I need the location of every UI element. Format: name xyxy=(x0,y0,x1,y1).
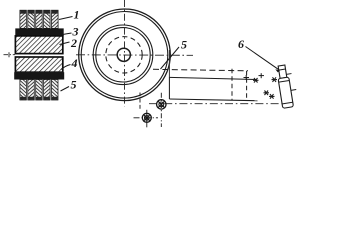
leader 5 left xyxy=(61,87,70,92)
wheel horizontal centerline xyxy=(76,54,193,57)
upper hub block xyxy=(15,36,62,54)
plus mark b xyxy=(259,73,265,78)
axis stub left of section xyxy=(4,52,16,57)
leader 5 right xyxy=(161,47,180,69)
svg-text:5: 5 xyxy=(71,78,77,92)
bore circle xyxy=(117,48,130,61)
asterisk 2 xyxy=(272,77,278,82)
wheel front view xyxy=(79,9,171,101)
svg-text:6: 6 xyxy=(238,37,244,51)
svg-text:1: 1 xyxy=(74,8,80,22)
asterisk 1 xyxy=(253,78,259,83)
plus mark a xyxy=(244,75,250,80)
svg-text:5: 5 xyxy=(181,38,187,52)
wheel vertical centerline xyxy=(124,0,126,107)
disc stack bottom (item 5) xyxy=(20,80,58,101)
asterisk 4 xyxy=(269,94,275,99)
leader 3 xyxy=(60,33,72,35)
rim inner circle xyxy=(81,12,168,99)
leader 6 xyxy=(246,47,280,70)
bolt circle dashed xyxy=(106,37,142,73)
hidden bracket edge dashed xyxy=(139,93,141,111)
arm dashed right end xyxy=(246,71,248,101)
bracket vertical thin line xyxy=(168,50,170,78)
svg-text:2: 2 xyxy=(70,36,77,50)
lower hub block xyxy=(15,57,62,72)
top flange band xyxy=(15,28,63,36)
arm dashed divider xyxy=(231,69,233,100)
outer rim circle xyxy=(79,9,171,101)
arm bar visible outline xyxy=(169,77,257,100)
leader 6 arrowhead xyxy=(275,69,280,72)
side plate outer circle xyxy=(93,25,153,85)
leader 4 xyxy=(61,65,71,70)
leader 2 xyxy=(60,42,70,45)
disc stack top (item 1) xyxy=(20,10,58,28)
asterisk 3 xyxy=(264,91,270,96)
dressing tool (item 6) xyxy=(276,64,299,109)
side plate inner circle xyxy=(96,28,150,82)
leader 1 xyxy=(59,17,73,20)
bolt B2 xyxy=(134,110,159,128)
bolt B1 xyxy=(157,93,166,127)
bottom flange band xyxy=(14,72,64,79)
arm pivot centerline xyxy=(149,103,291,105)
svg-text:4: 4 xyxy=(71,56,78,70)
arm hidden top edge dashed xyxy=(153,69,248,71)
